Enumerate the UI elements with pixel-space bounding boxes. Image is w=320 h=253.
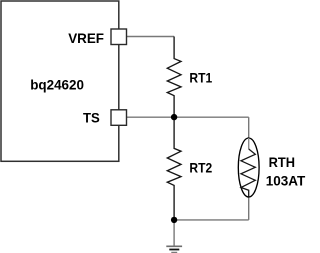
- wire RTH bottom lead: [248, 197, 250, 220]
- svg-text:RTH: RTH: [269, 154, 295, 170]
- pin TS: [111, 110, 127, 126]
- svg-text:VREF: VREF: [68, 30, 104, 46]
- svg-text:bq24620: bq24620: [30, 77, 84, 93]
- wire TS rail: [127, 116, 249, 118]
- svg-text:RT1: RT1: [189, 69, 212, 85]
- resistor RT2: [167, 117, 181, 220]
- junction node bottom: [171, 217, 177, 223]
- svg-text:TS: TS: [83, 109, 100, 125]
- wire VREF pin to RT1 top: [127, 36, 175, 38]
- svg-text:RT2: RT2: [189, 159, 212, 175]
- wire bottom rail: [174, 219, 249, 221]
- junction node TS: [171, 114, 177, 120]
- thermistor RTH body: [238, 138, 259, 197]
- svg-text:103AT: 103AT: [266, 173, 306, 189]
- resistor RT1: [167, 37, 181, 118]
- wire ground lead: [173, 220, 175, 246]
- wire RTH top lead: [248, 117, 250, 149]
- IC U1 bq24620: [1, 1, 119, 161]
- thermistor RTH element: [241, 149, 255, 197]
- ground: [166, 246, 182, 252]
- pin VREF: [111, 29, 127, 45]
- thermistor RTH inner top lead: [248, 138, 250, 149]
